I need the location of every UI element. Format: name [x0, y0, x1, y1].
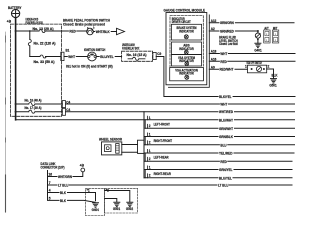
svg-text:VSA OFF SWITCH: VSA OFF SWITCH [246, 61, 262, 65]
svg-text:1: 1 [149, 133, 151, 137]
wire: fuse16 output drop to BLK/YEL row [156, 57, 295, 97]
svg-text:2: 2 [149, 124, 151, 128]
svg-text:G401: G401 [254, 48, 261, 52]
svg-text:1: 1 [149, 166, 151, 170]
gauge control module [164, 9, 210, 88]
svg-text:BLU/YEL: BLU/YEL [100, 55, 114, 59]
svg-text:+B: +B [80, 164, 85, 168]
ignition switch [66, 48, 113, 68]
wire to G502 (*2) [105, 191, 130, 202]
wire GRN/WHT label [219, 126, 235, 131]
wire WHT to ignition switch [64, 56, 88, 58]
wire BLK to ground [267, 69, 278, 78]
wheel sensor wires to connector [122, 145, 138, 153]
svg-text:*1: *1 [87, 189, 90, 193]
svg-text:No. 17 (30 A): No. 17 (30 A) [25, 106, 42, 110]
right-rear wheel sensor box [144, 166, 292, 178]
svg-text:BLU/WHT: BLU/WHT [219, 118, 234, 122]
DLC pin 16 / wire to +B [48, 172, 83, 179]
svg-text:BLK: BLK [60, 199, 66, 203]
VSA OFF switch [245, 61, 270, 73]
svg-text:RED: RED [220, 160, 227, 164]
ground G501 (*2) [113, 202, 120, 211]
wire WHT/RED long row [66, 111, 295, 113]
data link connector (16P) [41, 162, 65, 200]
svg-text:No. 18 (40 A): No. 18 (40 A) [25, 98, 42, 102]
right-front wheel sensor box [144, 133, 295, 145]
svg-text:G404: G404 [92, 208, 99, 212]
label BLU/WHT on battery feed row [219, 118, 235, 123]
svg-text:2: 2 [268, 64, 270, 68]
page margin artifact line [5, 32, 7, 210]
svg-text:INDICATOR: INDICATOR [179, 30, 194, 34]
brake fluid level switch [219, 30, 260, 46]
under-dash fuse/relay box [122, 43, 153, 62]
pin A9 / wire RED/WHT [209, 65, 247, 71]
wire GRN/YEL label [219, 167, 234, 172]
svg-text:B1: B1 [66, 48, 70, 52]
brake system indicator lamp [171, 24, 201, 40]
footnote box *1 [85, 188, 104, 215]
ground G502 (*2) [126, 202, 133, 211]
svg-text:IG1 hot in ON (II) and START (: IG1 hot in ON (II) and START (III) [66, 64, 113, 68]
svg-text:G501: G501 [113, 207, 120, 211]
ground G404 (*1) [92, 203, 99, 212]
brake pedal position switch [87, 27, 95, 35]
svg-text:BLU/YEL: BLU/YEL [219, 176, 233, 180]
svg-text:LT BLU: LT BLU [58, 184, 69, 188]
svg-text:BLU: BLU [220, 143, 227, 147]
svg-text:FUSE/RELAY BOX: FUSE/RELAY BOX [122, 46, 140, 50]
wire: battery main feed down left side then right as BLU/WHT row [15, 18, 17, 120]
fuse No.13 wire [16, 30, 39, 32]
connector C4 top [62, 100, 70, 107]
+B symbol [80, 164, 85, 172]
left-front wheel sensor box [145, 116, 294, 128]
M/T pin box [272, 26, 278, 43]
wire BLU/YEL label [219, 176, 233, 181]
svg-text:2: 2 [149, 141, 151, 145]
svg-text:1: 1 [245, 64, 247, 68]
svg-text:GAUGE CONTROL MODULE: GAUGE CONTROL MODULE [164, 9, 206, 13]
footnote box *2 [105, 188, 138, 213]
VSA activation indicator lamp [170, 68, 204, 81]
fuse No. 22 (120 A) vertical [28, 40, 55, 46]
wire WHT/BLK to arrow [93, 31, 116, 33]
wire GRN/BLK label [219, 134, 235, 139]
svg-text:WHT: WHT [220, 103, 228, 107]
svg-text:2: 2 [149, 157, 151, 161]
wire RED label [220, 159, 227, 164]
svg-text:WHT: WHT [220, 52, 228, 56]
wire: branch to fuse 22 [29, 31, 31, 57]
node: battery bus junction [15, 30, 17, 32]
wire RED from fuse 13 [62, 30, 87, 32]
svg-text:LEFT-FRONT: LEFT-FRONT [154, 123, 171, 127]
svg-text:GRN/YEL: GRN/YEL [219, 168, 233, 172]
svg-text:RED: RED [220, 60, 227, 64]
svg-text:RIGHT-REAR: RIGHT-REAR [154, 172, 172, 176]
off-page arrow [117, 28, 125, 34]
ABS indicator lamp [171, 42, 201, 54]
svg-text:IGNITION SWITCH: IGNITION SWITCH [84, 48, 106, 52]
svg-text:GRN/RED: GRN/RED [220, 30, 234, 34]
svg-text:RED: RED [69, 30, 76, 34]
svg-text:RIGHT-FRONT: RIGHT-FRONT [154, 139, 173, 143]
svg-text:G502: G502 [126, 207, 133, 211]
svg-text:CONNECTOR (16P): CONNECTOR (16P) [41, 166, 65, 170]
svg-text:LT BLU: LT BLU [218, 184, 229, 188]
under-hood fuse/relay box [11, 17, 62, 116]
svg-text:No. 13 (20 A): No. 13 (20 A) [33, 27, 54, 31]
wire BLU label [220, 143, 227, 148]
svg-text:1: 1 [149, 149, 151, 153]
fuse No. 33 (50 A) [34, 55, 55, 64]
svg-text:2: 2 [149, 174, 151, 178]
svg-text:WHT: WHT [68, 55, 76, 59]
label BLK/YEL [219, 94, 233, 99]
ground G401 [254, 43, 261, 52]
fuse No.18 row [16, 103, 63, 105]
DLC pin 5 / wire BLK [48, 197, 96, 203]
svg-text:YEL/RED: YEL/RED [219, 152, 233, 156]
fuse No. 13 (20 A) [33, 27, 54, 33]
svg-text:1: 1 [149, 116, 151, 120]
pin A2 / wire GRN/RED [209, 27, 258, 33]
svg-text:WHEEL SENSOR: WHEEL SENSOR [99, 138, 122, 142]
DLC pin 7 / wire LT BLU long row [48, 181, 293, 187]
brake pedal position switch caption [63, 19, 110, 27]
svg-text:WHT/RED: WHT/RED [219, 110, 233, 114]
connector C4 bottom [62, 108, 70, 115]
wire to G501 (*2) [105, 199, 117, 202]
DLC pin 4 / wire BLK [48, 189, 96, 201]
wire WHT long row [66, 103, 295, 105]
svg-text:G501: G501 [269, 83, 276, 87]
svg-text:+B: +B [7, 20, 12, 24]
VSA system indicator lamp [171, 55, 201, 66]
A/T pin box [264, 26, 270, 43]
svg-text:GRN/ORN: GRN/ORN [220, 21, 234, 25]
svg-text:GRN/BLK: GRN/BLK [219, 135, 233, 139]
svg-text:WHT/BLK: WHT/BLK [96, 30, 110, 34]
svg-text:C9: C9 [157, 52, 161, 56]
svg-text:Closed: Brake pedal pressed: Closed: Brake pedal pressed [63, 23, 105, 27]
svg-text:BATTERY: BATTERY [8, 6, 22, 10]
pin A16 / wire RED [209, 57, 295, 63]
pin A12 / wire GRN/ORN [209, 19, 294, 25]
fuse No.17 row [16, 111, 63, 113]
connector B1 [61, 48, 70, 60]
svg-text:No. 33 (50 A): No. 33 (50 A) [34, 60, 55, 64]
battery [7, 6, 22, 24]
svg-text:BLK: BLK [272, 74, 278, 78]
svg-text:BLK: BLK [60, 191, 66, 195]
pin A18 / wire WHT [209, 50, 295, 56]
svg-text:GRN/WHT: GRN/WHT [219, 127, 234, 131]
wire YEL/RED label [219, 151, 234, 156]
svg-text:INDICATOR: INDICATOR [179, 59, 194, 63]
svg-text:Closed: Low fluid: Closed: Low fluid [219, 42, 238, 46]
svg-text:No. 22 (120 A): No. 22 (120 A) [34, 41, 56, 45]
svg-text:LEFT-REAR: LEFT-REAR [154, 156, 169, 160]
svg-text:BLK/YEL: BLK/YEL [219, 95, 232, 99]
svg-text:FUSE/RELAY BOX: FUSE/RELAY BOX [26, 21, 44, 25]
connector C9 [153, 52, 162, 60]
wire BLU/YEL to under-dash box [96, 56, 121, 58]
svg-text:A12: A12 [211, 19, 217, 23]
connector (wheel sensor) [138, 140, 145, 153]
indicator driver circuit (dashed) [170, 16, 203, 81]
svg-text:DRIVER CIRCUIT: DRIVER CIRCUIT [172, 20, 192, 24]
wheel sensor bus [143, 112, 145, 178]
ground G501 (VSA off switch) [269, 79, 276, 88]
wire: fuse 33 row [30, 56, 61, 58]
left-rear wheel sensor box [144, 149, 294, 161]
svg-text:RED/WHT: RED/WHT [220, 68, 235, 72]
svg-text:WHT/GRN: WHT/GRN [58, 175, 72, 179]
wheel sensor (representative) [99, 138, 122, 155]
svg-text:No. 16 (15 A): No. 16 (15 A) [127, 53, 147, 57]
